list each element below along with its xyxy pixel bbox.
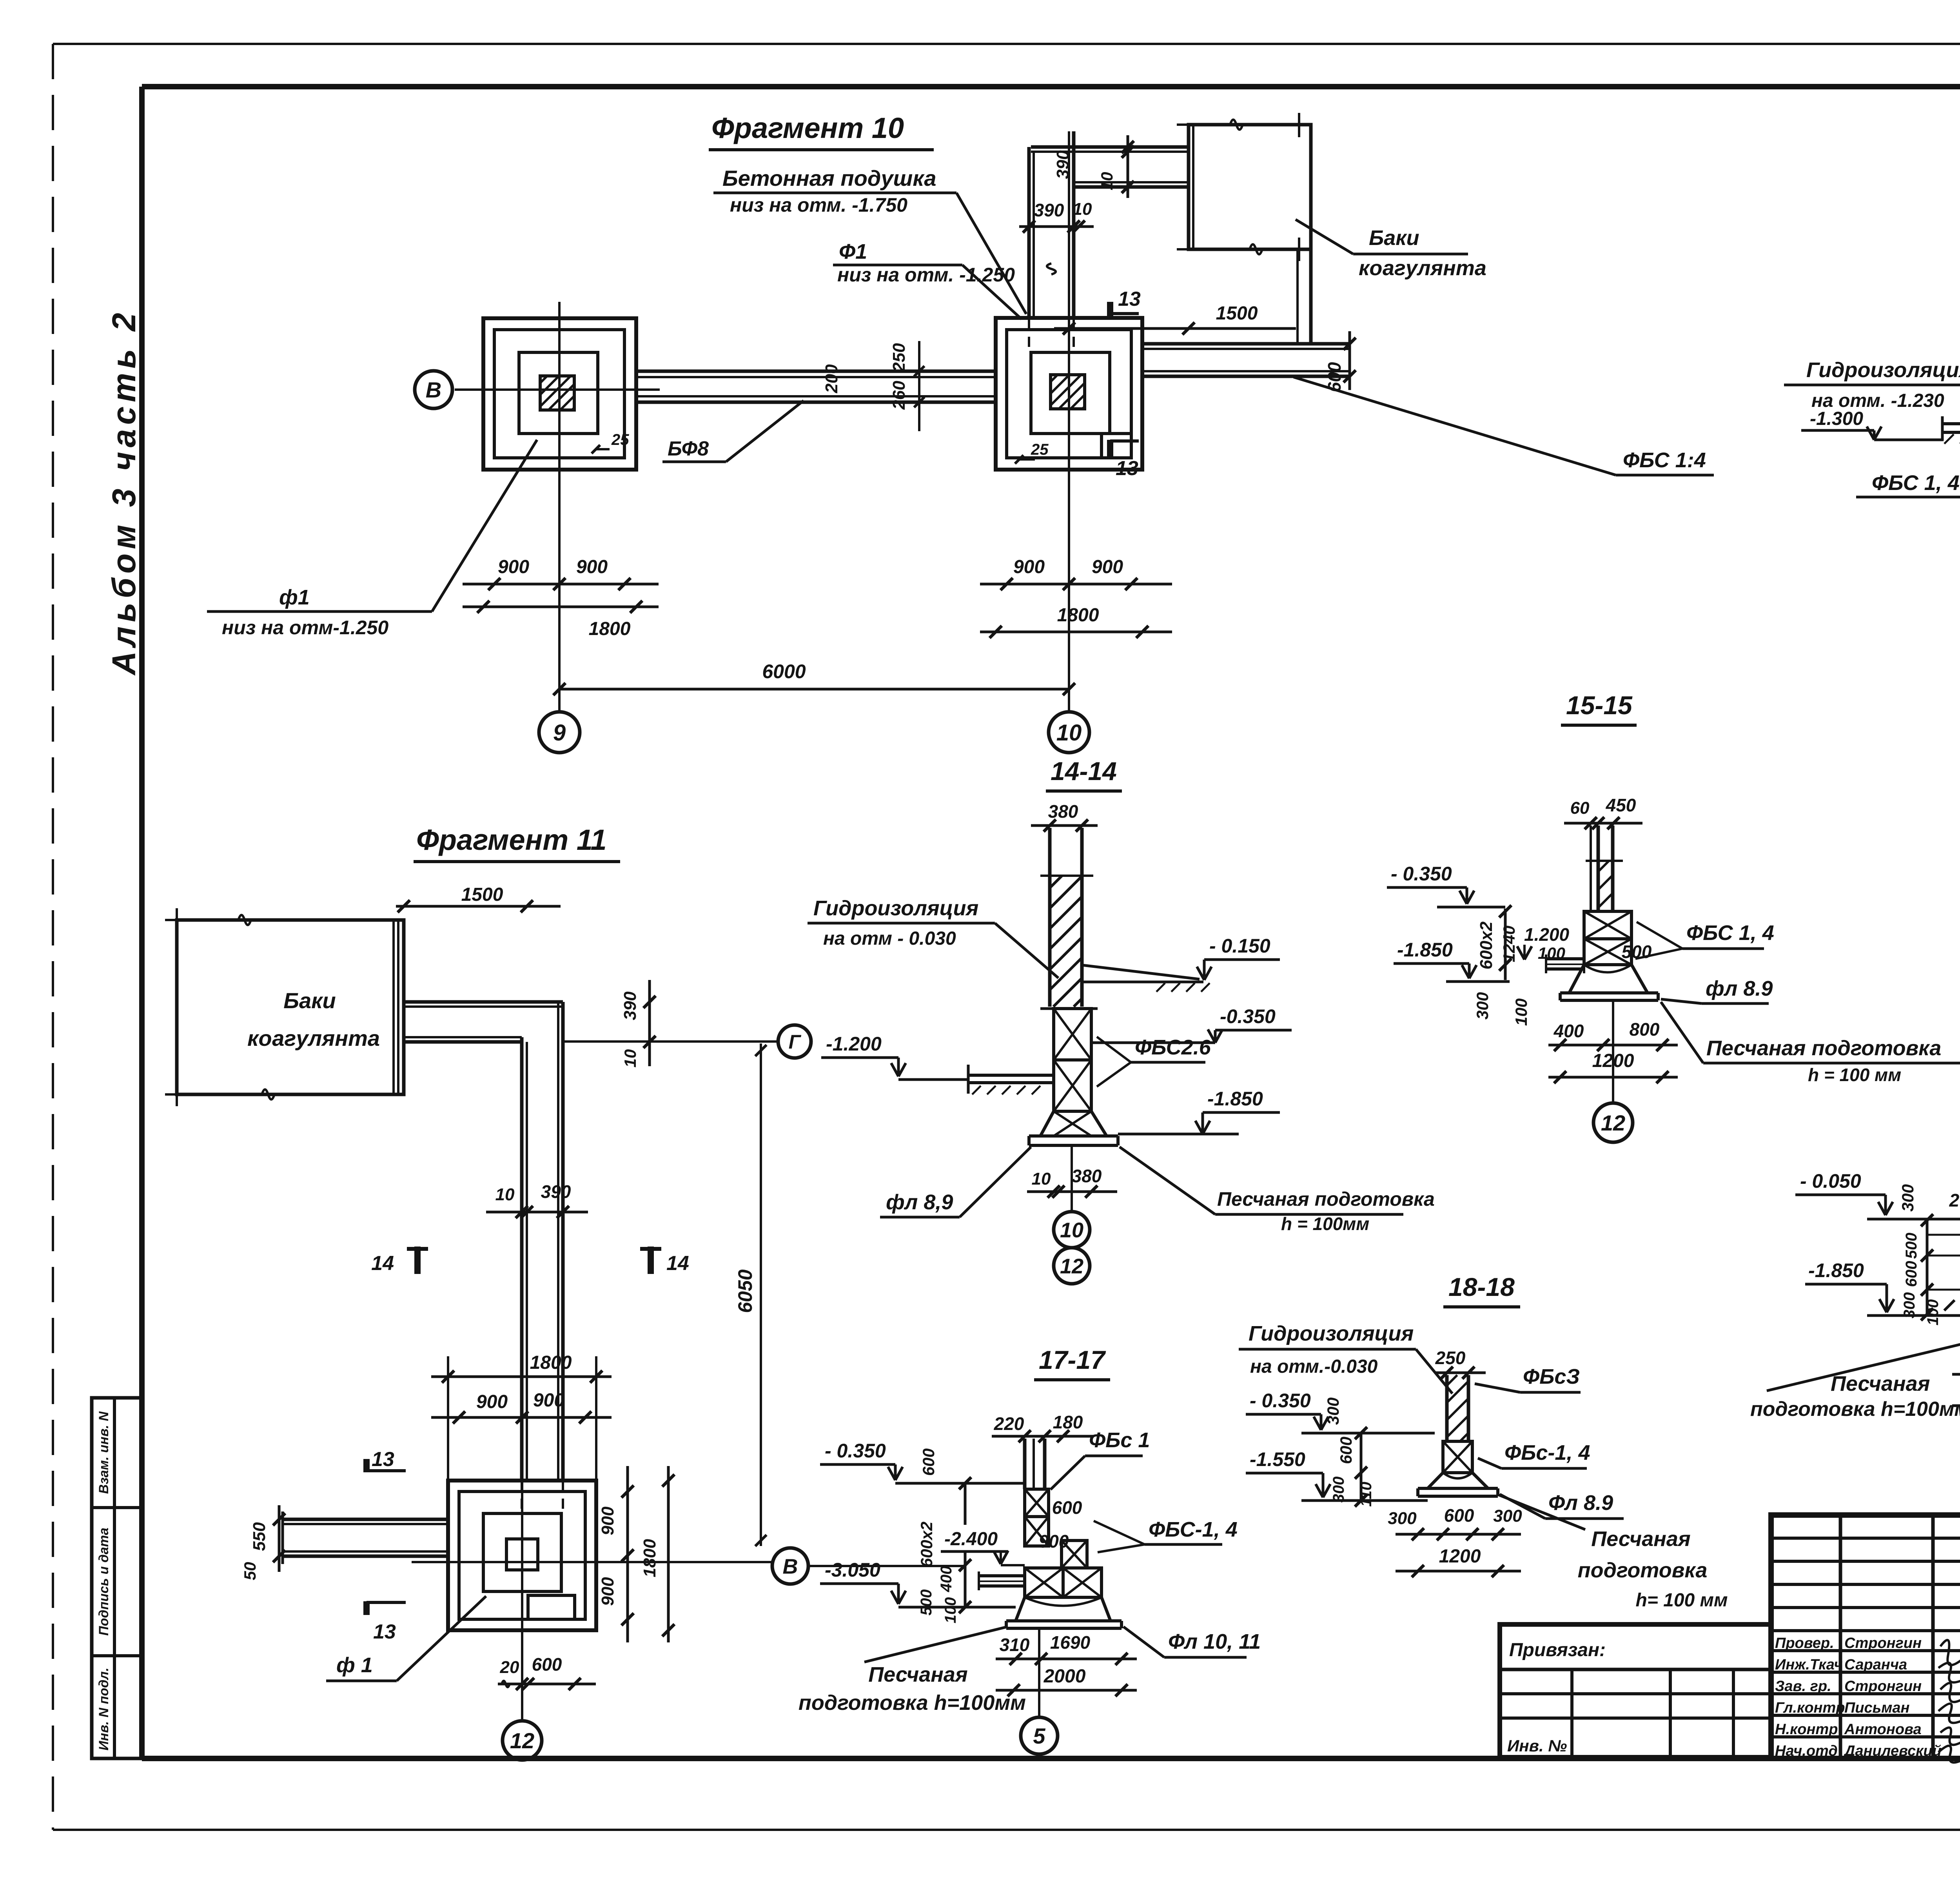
svg-text:Фл 8.9: Фл 8.9 [1548,1491,1613,1515]
svg-text:Песчаная подготовка: Песчаная подготовка [1217,1188,1435,1210]
svg-text:Инж.Ткач: Инж.Ткач [1775,1657,1843,1673]
svg-text:800: 800 [1630,1019,1660,1040]
svg-text:Саранча: Саранча [1844,1657,1907,1673]
svg-text:ФБс-1, 4: ФБс-1, 4 [1504,1441,1590,1464]
svg-text:13: 13 [1118,288,1141,310]
svg-text:Баки: Баки [1369,226,1419,250]
svg-text:-2.400: -2.400 [944,1529,998,1550]
svg-text:900: 900 [598,1577,617,1606]
svg-text:10: 10 [1032,1169,1051,1189]
svg-text:260: 260 [889,381,909,410]
svg-text:Стронгин: Стронгин [1844,1635,1922,1651]
svg-text:60: 60 [1570,798,1590,818]
svg-text:Гидроизоляция: Гидроизоляция [1249,1322,1414,1345]
svg-text:В: В [783,1555,798,1578]
svg-text:380: 380 [1072,1166,1102,1186]
svg-text:200: 200 [822,364,841,394]
svg-text:-1.850: -1.850 [1808,1259,1864,1281]
svg-text:13: 13 [373,1620,396,1643]
svg-text:500: 500 [918,1590,935,1616]
svg-text:- 0.150: - 0.150 [1209,935,1270,957]
svg-text:390: 390 [621,991,640,1020]
svg-text:13: 13 [372,1448,394,1471]
svg-text:- 0.350: - 0.350 [825,1440,886,1462]
svg-text:250: 250 [889,343,909,372]
svg-text:10: 10 [1073,200,1092,219]
svg-text:300: 300 [1901,1292,1918,1319]
svg-text:17-17: 17-17 [1039,1345,1106,1374]
svg-text:900: 900 [1092,557,1123,577]
svg-text:Антонова: Антонова [1844,1721,1922,1738]
svg-text:600: 600 [1903,1261,1920,1287]
svg-text:В: В [426,377,441,402]
svg-text:14: 14 [666,1252,689,1275]
svg-text:h= 100 мм: h= 100 мм [1635,1590,1728,1611]
svg-text:Баки: Баки [283,988,336,1013]
svg-text:390: 390 [1053,150,1073,179]
svg-text:100: 100 [1924,1299,1942,1326]
svg-text:Альбом 3 часть 2: Альбом 3 часть 2 [105,308,142,676]
svg-text:h = 100 мм: h = 100 мм [1808,1065,1901,1085]
svg-text:БФ8: БФ8 [668,437,709,460]
svg-text:900: 900 [498,557,529,577]
svg-text:6000: 6000 [762,660,806,682]
svg-text:Фрагмент 11: Фрагмент 11 [416,824,607,856]
svg-text:25: 25 [1031,441,1049,458]
svg-text:Г: Г [789,1031,802,1053]
svg-text:400: 400 [938,1566,955,1593]
svg-text:Письман: Письман [1844,1700,1909,1716]
svg-text:-0.350: -0.350 [1220,1005,1276,1027]
svg-text:300: 300 [1473,992,1492,1020]
svg-text:10: 10 [1098,172,1116,191]
svg-text:Гл.контр: Гл.контр [1775,1700,1845,1716]
svg-text:900: 900 [476,1392,508,1412]
svg-text:390: 390 [1034,200,1064,220]
svg-text:подготовка h=100мм: подготовка h=100мм [1750,1398,1960,1421]
svg-text:220: 220 [994,1414,1024,1434]
svg-text:подготовка: подготовка [1578,1559,1708,1582]
svg-text:600х2: 600х2 [917,1522,936,1568]
svg-text:13: 13 [1116,457,1138,480]
svg-text:ФБС-1, 4: ФБС-1, 4 [1149,1518,1238,1541]
svg-text:300: 300 [1388,1509,1417,1528]
svg-text:900: 900 [533,1390,564,1411]
svg-text:2000: 2000 [1044,1666,1086,1687]
svg-text:300: 300 [1898,1184,1917,1212]
svg-text:380: 380 [1048,801,1078,822]
svg-text:Взам. инв. N: Взам. инв. N [96,1411,111,1494]
svg-text:1800: 1800 [640,1539,659,1577]
svg-text:600: 600 [919,1448,938,1476]
svg-text:ФБС 1, 4: ФБС 1, 4 [1686,921,1774,945]
svg-text:Зав. гр.: Зав. гр. [1775,1678,1831,1695]
svg-text:h = 100мм: h = 100мм [1281,1214,1369,1234]
svg-text:- 0.350: - 0.350 [1250,1390,1311,1412]
svg-text:Н.контр: Н.контр [1775,1721,1838,1738]
svg-text:Стронгин: Стронгин [1844,1678,1922,1695]
svg-text:300: 300 [1330,1477,1347,1503]
svg-text:ФБС 1, 4: ФБС 1, 4 [1872,471,1960,495]
svg-text:Песчаная: Песчаная [868,1663,967,1686]
svg-text:900: 900 [1013,557,1045,577]
svg-text:ФБс 1: ФБс 1 [1089,1428,1150,1452]
svg-text:18-18: 18-18 [1448,1272,1515,1301]
svg-text:6050: 6050 [734,1269,756,1313]
svg-text:1690: 1690 [1050,1632,1091,1653]
svg-text:-1.300: -1.300 [1810,408,1863,429]
svg-text:Песчаная: Песчаная [1591,1527,1690,1551]
svg-text:коагулянта: коагулянта [1359,256,1486,280]
svg-text:1800: 1800 [1057,605,1099,626]
svg-text:низ на отм. -1.750: низ на отм. -1.750 [730,194,907,216]
svg-text:- 0.350: - 0.350 [1391,863,1452,885]
svg-text:10: 10 [495,1185,515,1204]
svg-text:-1.200: -1.200 [826,1033,882,1055]
svg-text:1800: 1800 [530,1352,572,1373]
svg-text:Гидроизоляция: Гидроизоляция [1806,358,1960,382]
svg-text:фл 8,9: фл 8,9 [886,1190,953,1214]
svg-text:ф1: ф1 [279,586,310,609]
svg-text:ФБС2.6: ФБС2.6 [1135,1036,1211,1059]
svg-text:подготовка h=100мм: подготовка h=100мм [799,1691,1026,1715]
svg-text:ФБС 1:4: ФБС 1:4 [1623,448,1706,472]
svg-text:низ на отм. -1.250: низ на отм. -1.250 [837,264,1015,286]
svg-text:Песчаная подготовка: Песчаная подготовка [1706,1036,1941,1060]
svg-text:12: 12 [1060,1254,1083,1278]
svg-text:25: 25 [611,431,629,448]
svg-text:10: 10 [1056,720,1082,746]
svg-text:1800: 1800 [589,619,631,639]
svg-text:Инв. №: Инв. № [1507,1737,1567,1755]
svg-text:50: 50 [241,1562,259,1580]
svg-text:Фрагмент 10: Фрагмент 10 [711,112,904,144]
svg-text:Данилевский: Данилевский [1843,1743,1942,1759]
svg-text:500: 500 [1903,1233,1920,1259]
svg-text:600: 600 [1337,1437,1355,1464]
svg-text:250: 250 [1435,1348,1466,1368]
svg-text:1200: 1200 [1439,1546,1481,1567]
svg-text:ф 1: ф 1 [336,1653,373,1677]
svg-text:Песчаная: Песчаная [1831,1372,1930,1395]
svg-text:1.200: 1.200 [1524,924,1570,945]
svg-text:1500: 1500 [461,884,503,905]
svg-text:14-14: 14-14 [1051,757,1117,786]
svg-text:450: 450 [1606,795,1636,815]
svg-text:1240: 1240 [1500,925,1518,962]
svg-text:-1.850: -1.850 [1397,939,1453,961]
svg-text:600: 600 [1444,1505,1474,1526]
svg-text:12: 12 [510,1728,534,1753]
svg-text:900: 900 [598,1506,617,1535]
svg-text:-1.550: -1.550 [1250,1448,1305,1470]
svg-text:12: 12 [1601,1110,1625,1135]
svg-text:ФБсЗ: ФБсЗ [1523,1365,1580,1388]
svg-text:300: 300 [1324,1397,1342,1425]
svg-text:9: 9 [553,720,566,746]
svg-text:низ на отм-1.250: низ на отм-1.250 [222,617,388,639]
svg-text:300: 300 [1493,1506,1522,1526]
svg-text:200: 200 [1949,1190,1960,1210]
svg-text:600: 600 [532,1654,562,1675]
svg-text:14: 14 [371,1252,394,1275]
svg-text:Провер.: Провер. [1775,1635,1834,1651]
svg-text:600: 600 [1052,1497,1082,1518]
svg-text:310: 310 [1000,1635,1030,1655]
svg-text:20: 20 [500,1658,519,1677]
svg-text:5: 5 [1033,1724,1045,1748]
svg-text:400: 400 [1553,1021,1584,1041]
svg-text:900: 900 [576,557,608,577]
svg-text:Подпись и дата: Подпись и дата [96,1528,111,1636]
svg-text:на отм.-0.030: на отм.-0.030 [1250,1356,1378,1377]
svg-text:1500: 1500 [1216,303,1258,324]
svg-text:10: 10 [621,1049,639,1068]
svg-text:100: 100 [942,1597,959,1624]
svg-text:600х2: 600х2 [1477,921,1496,969]
svg-text:Инв. N подл.: Инв. N подл. [96,1668,111,1751]
svg-text:-1.850: -1.850 [1207,1088,1263,1110]
svg-text:550: 550 [250,1522,269,1551]
svg-text:на отм - 0.030: на отм - 0.030 [823,928,956,949]
svg-text:100: 100 [1512,998,1530,1026]
svg-text:-3.050: -3.050 [825,1559,880,1581]
svg-text:390: 390 [541,1181,571,1202]
svg-text:Нач.отд: Нач.отд [1775,1743,1838,1759]
svg-text:Фл 10, 11: Фл 10, 11 [1168,1630,1261,1653]
svg-text:Бетонная подушка: Бетонная подушка [722,166,936,191]
svg-text:фл 8.9: фл 8.9 [1706,977,1773,1000]
svg-text:коагулянта: коагулянта [247,1026,380,1051]
svg-text:- 0.050: - 0.050 [1800,1170,1861,1192]
svg-text:Привязан:: Привязан: [1509,1640,1606,1660]
svg-text:Ф1: Ф1 [839,240,867,263]
svg-text:10: 10 [1060,1218,1083,1242]
svg-text:15-15: 15-15 [1566,691,1633,720]
svg-text:Гидроизоляция: Гидроизоляция [813,896,978,920]
